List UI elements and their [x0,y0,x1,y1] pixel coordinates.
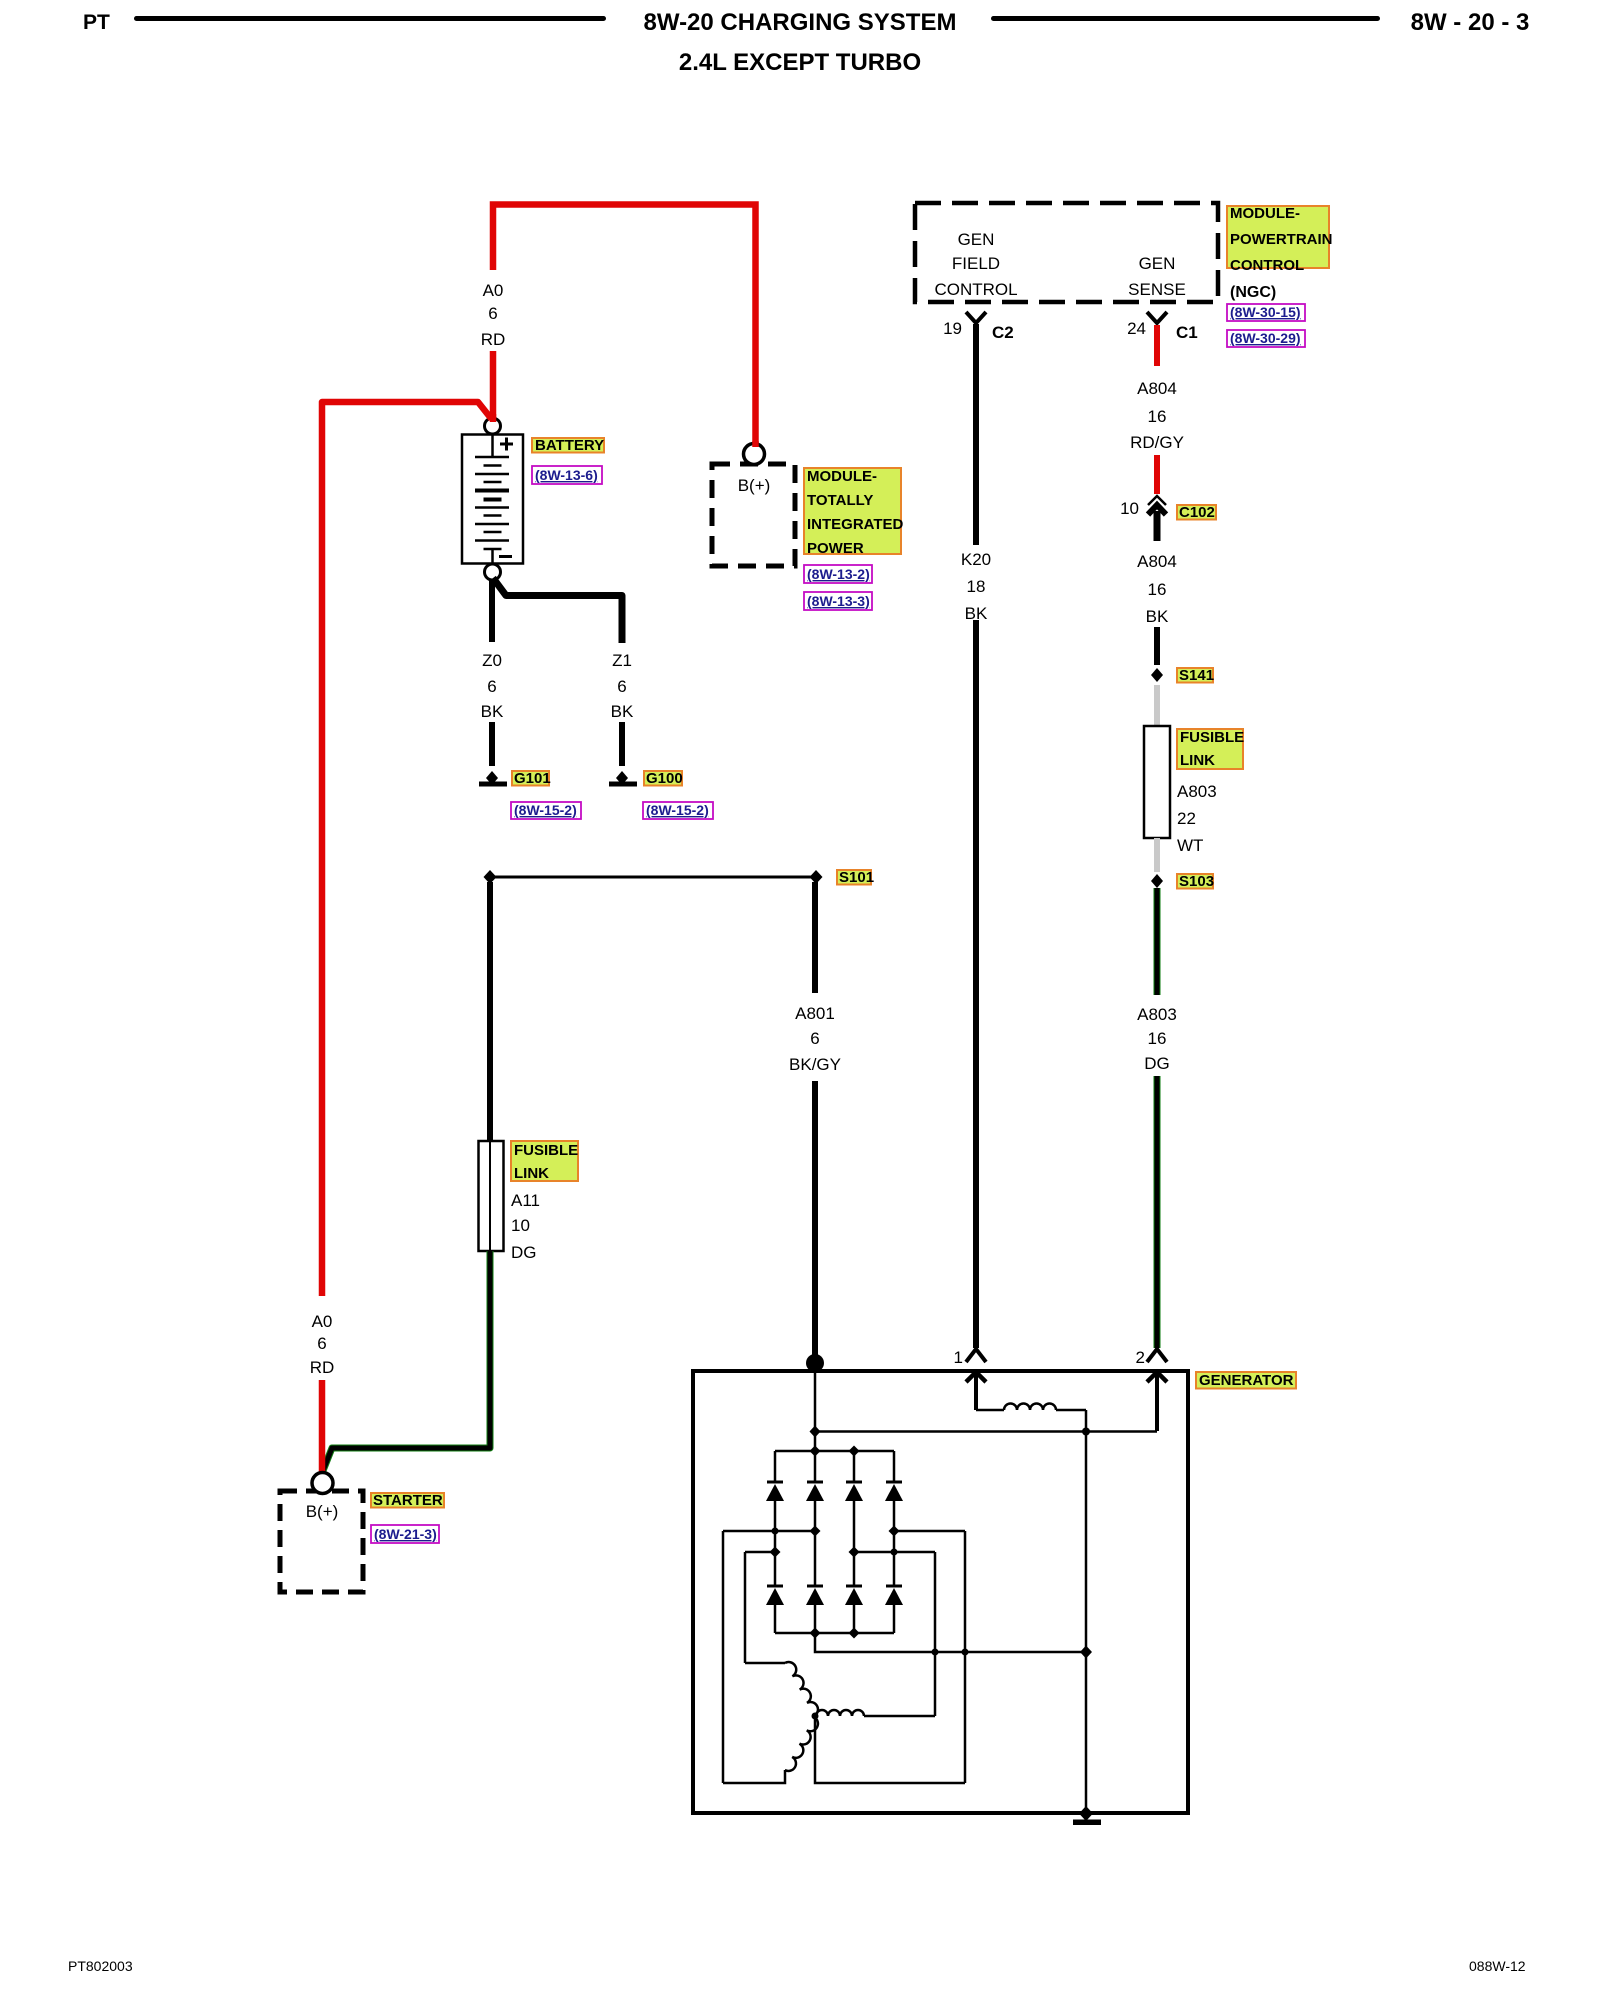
svg-text:C102: C102 [1179,504,1215,521]
label C102 [1177,504,1216,521]
node field/sense crossing dot [1082,1428,1090,1436]
link (8W-30-29) [1227,330,1305,347]
label MODULE-POWERTRAIN CONTROL [1227,205,1333,274]
svg-text:RD: RD [481,330,506,349]
svg-text:TOTALLY: TOTALLY [807,492,873,509]
label S141 [1177,667,1214,684]
svg-text:A804: A804 [1137,552,1177,571]
svg-text:B(+): B(+) [306,1502,339,1521]
wire A0 RD starter riser [322,402,492,1296]
svg-text:(8W-13-6): (8W-13-6) [535,467,598,483]
stator phase C coil [785,1717,818,1771]
wire diode column drops (top) [775,1451,894,1482]
svg-text:10: 10 [1120,499,1139,518]
svg-text:16: 16 [1148,580,1167,599]
svg-text:6: 6 [488,304,497,323]
svg-text:CONTROL: CONTROL [1230,257,1304,274]
wire A803 WT upper [1154,685,1160,726]
svg-text:A0: A0 [312,1312,333,1331]
svg-text:STARTER: STARTER [373,1492,443,1509]
svg-text:2.4L EXCEPT TURBO: 2.4L EXCEPT TURBO [679,49,921,76]
label BATTERY [532,437,604,454]
label FUSIBLE LINK (A11) [511,1141,578,1182]
svg-text:16: 16 [1148,1029,1167,1048]
diode D6 [806,1586,824,1605]
pin 2 fork at generator [1147,1349,1167,1362]
wire A801 BK/GY lower [812,1081,818,1360]
node junction at sense tie [810,1426,821,1438]
svg-text:(8W-15-2): (8W-15-2) [514,802,577,818]
svg-text:(8W-13-2): (8W-13-2) [807,566,870,582]
svg-text:FIELD: FIELD [952,254,1000,273]
wire A0 RD top run (battery to TIPM) [493,205,756,448]
wire rail to ground bus [815,1633,1086,1652]
svg-text:PT: PT [83,11,110,34]
pin 2 arrow (gen sense) [1147,1372,1167,1431]
svg-text:BK: BK [611,702,634,721]
link (8W-13-3) [804,592,872,610]
label FUSIBLE LINK (A803) [1177,729,1244,769]
svg-text:Z1: Z1 [612,651,632,670]
svg-text:G101: G101 [514,770,551,787]
svg-text:LINK: LINK [514,1165,549,1182]
terminal circle B(+) starter [312,1473,333,1494]
svg-text:BK/GY: BK/GY [789,1055,841,1074]
label G101 [512,770,551,787]
link (8W-15-2) left [511,802,581,819]
label A0 6 RD (top) [481,281,506,349]
wire diode column middles [775,1501,894,1586]
svg-text:C2: C2 [992,323,1014,342]
svg-text:INTEGRATED: INTEGRATED [807,516,904,533]
svg-text:MODULE-: MODULE- [807,468,877,485]
wire diode top rail [775,1450,894,1453]
stator phase B coil [816,1710,864,1716]
ground at generator [1073,1806,1101,1825]
label GEN FIELD CONTROL [934,230,1017,299]
stator phase A coil [785,1662,818,1716]
svg-text:A11: A11 [511,1191,540,1210]
ground G101 [479,771,507,787]
svg-text:GEN: GEN [1139,254,1176,273]
wire A804 RD/GY lower [1154,455,1160,494]
svg-text:BATTERY: BATTERY [535,437,604,454]
svg-text:RD: RD [310,1358,335,1377]
pin 19 connector C2 [966,312,986,323]
wire A803 DG upper [1154,888,1161,995]
splice S141 [1151,668,1163,682]
svg-text:S141: S141 [1179,667,1214,684]
svg-text:6: 6 [810,1029,819,1048]
wire A0 RD battery feed lower [490,351,497,421]
label A801 6 BK/GY [789,1004,841,1074]
svg-text:6: 6 [617,677,626,696]
svg-text:A803: A803 [1137,1005,1177,1024]
label A803 22 WT [1177,782,1217,855]
wire K20 BK upper [973,324,979,545]
label A804 16 RD/GY [1130,379,1184,452]
svg-text:SENSE: SENSE [1128,280,1186,299]
link (8W-21-3) [371,1525,439,1543]
svg-text:A801: A801 [795,1004,835,1023]
node ground bus junction [1080,1646,1092,1659]
svg-text:A803: A803 [1177,782,1217,801]
svg-text:POWER: POWER [807,540,864,557]
svg-text:10: 10 [511,1216,530,1235]
label S103 [1177,873,1214,890]
svg-text:BK: BK [1146,607,1169,626]
battery negative terminal [485,564,501,580]
svg-text:S101: S101 [839,869,874,886]
diode D5 [766,1586,784,1605]
stator phase C lead [723,1770,785,1783]
svg-text:BK: BK [481,702,504,721]
svg-text:16: 16 [1148,407,1167,426]
label A803 16 DG [1137,1005,1177,1073]
svg-text:S103: S103 [1179,873,1214,890]
label A804 16 BK [1137,552,1177,626]
connector B(+) starter dashed box [280,1491,363,1592]
label GEN SENSE [1128,254,1186,299]
wire stator right verticals [934,1552,937,1716]
wire A0 RD starter lower [319,1380,326,1472]
generator box [693,1371,1188,1813]
svg-text:RD/GY: RD/GY [1130,433,1184,452]
wire gen internal sense link [815,1430,1157,1433]
label Z1 6 BK [611,651,634,721]
svg-text:DG: DG [1144,1054,1170,1073]
page header [83,9,1529,76]
wire A803 WT lower [1154,838,1160,872]
svg-text:088W-12: 088W-12 [1469,1958,1526,1974]
svg-text:18: 18 [967,577,986,596]
svg-text:22: 22 [1177,809,1196,828]
link (8W-13-2) [804,565,872,583]
wire A804 RD/GY upper [1154,325,1160,366]
label S101 [837,869,874,886]
svg-text:K20: K20 [961,550,991,569]
pin 1 fork at generator [966,1349,986,1362]
svg-text:6: 6 [487,677,496,696]
svg-text:G100: G100 [646,770,683,787]
link (8W-30-15) [1227,304,1305,321]
stator phase A lead [745,1662,785,1665]
wire Z1 BK upper (battery negative, right branch) [493,578,622,643]
svg-text:(8W-13-3): (8W-13-3) [807,593,870,609]
svg-text:19: 19 [943,319,962,338]
svg-text:(8W-21-3): (8W-21-3) [374,1526,437,1542]
wire Z1 BK lower [619,722,625,766]
svg-text:8W-20 CHARGING SYSTEM: 8W-20 CHARGING SYSTEM [644,9,957,36]
label A0 6 RD (starter) [310,1312,335,1377]
label A11 10 DG [511,1191,540,1262]
label K20 18 BK [961,550,991,623]
svg-text:(NGC): (NGC) [1230,284,1276,301]
fusible link A11 [479,1141,504,1251]
pin 24 connector C1 [1147,312,1167,323]
svg-text:1: 1 [954,1348,963,1367]
wire A11 DG upper (S101 to fusible link) [487,882,493,1141]
svg-text:6: 6 [317,1334,326,1353]
wire stator left verticals [722,1531,725,1783]
wire Z0 BK lower [489,722,495,766]
wire phase tap right (col3) [854,1551,935,1554]
wire phase tap left (col1) [745,1551,775,1554]
svg-text:CONTROL: CONTROL [934,280,1017,299]
label GENERATOR [1196,1372,1296,1389]
svg-text:A0: A0 [483,281,504,300]
label Z0 6 BK [481,651,504,721]
diode D8 [885,1586,903,1605]
diode D1 [766,1482,784,1501]
node A801 output junction [806,1354,824,1372]
wire A11 DG lower (to starter) [323,1251,491,1472]
svg-text:GEN: GEN [958,230,995,249]
svg-text:GENERATOR: GENERATOR [1199,1372,1294,1389]
stator neutral tap [815,1716,965,1783]
diode D4 [885,1482,903,1501]
label G100 [644,770,683,787]
svg-text:FUSIBLE: FUSIBLE [1180,729,1244,746]
svg-text:B(+): B(+) [738,476,771,495]
svg-text:24: 24 [1127,319,1146,338]
wire gen internal B+ drop [814,1363,817,1451]
battery positive terminal [485,418,501,434]
wire diode column bottoms [775,1605,894,1633]
wire Z0 BK upper (battery negative to label) [489,580,495,642]
svg-text:8W - 20 - 3: 8W - 20 - 3 [1411,9,1530,36]
label STARTER [371,1492,444,1509]
wire A804 BK [1154,627,1160,665]
link (8W-13-6) [532,466,602,484]
module PCM dashed box [915,203,1218,302]
svg-text:Z0: Z0 [482,651,502,670]
svg-text:WT: WT [1177,836,1203,855]
terminal circle B(+) TIPM [744,444,765,465]
node rail junctions [810,1446,821,1457]
rotor field coil [976,1404,1086,1411]
splice S103 [1151,874,1163,888]
connector B(+) TIPM dashed box [712,464,795,566]
wire field return to ground [1085,1410,1088,1813]
diode D3 [845,1482,863,1501]
wire A803 DG lower [1154,1076,1161,1348]
wire phase tap right (col4) [894,1530,965,1533]
svg-text:C1: C1 [1176,323,1198,342]
page footer [68,1958,1526,1974]
diode D2 [806,1482,824,1501]
connector C102 [1148,496,1166,541]
svg-text:(8W-30-15): (8W-30-15) [1230,304,1301,320]
svg-text:DG: DG [511,1243,537,1262]
ground G100 [609,771,637,787]
wire diode bottom rail [775,1632,894,1635]
wire phase tap left (col2) [723,1530,815,1533]
diode D7 [845,1586,863,1605]
svg-text:A804: A804 [1137,379,1177,398]
fusible link A803 [1144,726,1170,838]
battery B1 [462,435,523,564]
link (8W-15-2) right [643,802,713,819]
label MODULE-TOTALLY INTEGRATED POWER [804,468,904,557]
svg-text:POWERTRAIN: POWERTRAIN [1230,231,1333,248]
wire K20 BK lower [973,620,979,1348]
svg-text:FUSIBLE: FUSIBLE [514,1142,578,1159]
svg-text:LINK: LINK [1180,752,1215,769]
wire A801 BK/GY upper [812,882,818,993]
splice S101 bus [484,870,823,884]
svg-text:2: 2 [1136,1348,1145,1367]
pin 1 arrow (gen field) [966,1372,986,1410]
svg-text:(8W-15-2): (8W-15-2) [646,802,709,818]
stator phase B lead [864,1715,935,1718]
svg-text:MODULE-: MODULE- [1230,205,1300,222]
svg-text:PT802003: PT802003 [68,1958,133,1974]
svg-text:(8W-30-29): (8W-30-29) [1230,330,1301,346]
